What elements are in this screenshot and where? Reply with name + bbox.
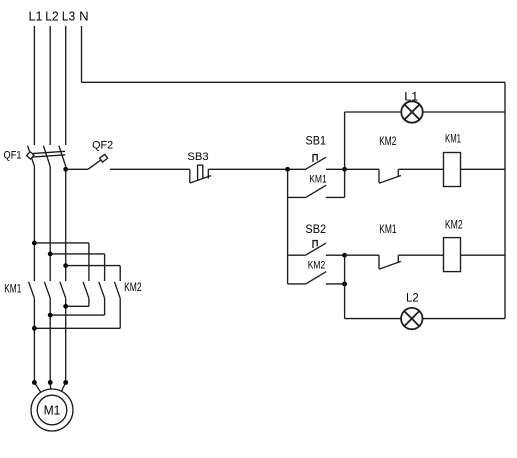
motor M1 outer circle [31,389,73,431]
wire lamp L2 horizontal [345,318,505,320]
contact KM2 aux left lead [288,283,306,285]
pushbutton SB1 plunger [313,155,317,162]
node L1 label [29,9,43,24]
svg-text:KM2: KM2 [308,259,326,271]
contact KM2 blade [379,176,401,184]
motor M1 inner circle [37,395,67,425]
wire rung1 right vertical [344,169,346,197]
contactor KM2 main contact 3 blade [114,282,120,298]
wire KM2 branch 3 lower [119,298,121,328]
wire tap A horizontal [34,242,89,244]
node tap A dot [32,241,37,246]
pushbutton SB1 blade [306,157,327,169]
pushbutton SB2 plunger [313,241,317,248]
contactor KM1 label [4,284,21,296]
node N label [79,9,89,24]
wire KM2 branch 1 lower [88,298,90,306]
wire lamp L1 horizontal [345,111,505,113]
pushbutton SB3 plunger [198,165,203,180]
wire L1 phase mid [33,166,35,281]
contactor KM2 label [124,282,142,294]
svg-text:KM1: KM1 [379,222,397,236]
coil KM2 rectangle [444,238,461,272]
wire KM1 contact to coil KM2 [398,254,443,256]
wire L2 phase mid [49,166,51,281]
wire rung2 right vertical [344,255,346,318]
node crossover 2 dot [48,313,53,318]
breaker QF1 pole 2 blade [43,146,50,167]
lamp L2 symbol [401,308,422,329]
wire N horizontal top [82,81,506,83]
wire coil KM2 to right rail [461,254,506,256]
node rung1 right dot [342,167,347,172]
svg-text:QF2: QF2 [92,140,113,152]
contact KM2 right stub [397,169,399,177]
lamp L1 label [404,90,418,104]
wire KM2 branch 2 lower [104,298,106,315]
wire L1 phase lower [33,298,35,382]
switch QF2 handle square [100,154,108,162]
wire coil KM1 to right rail [461,168,506,170]
pushbutton SB2 blade [306,243,327,255]
breaker QF1 pole 1 blade [28,146,35,167]
contact KM1 aux label [309,174,327,186]
svg-text:KM1: KM1 [445,133,461,145]
pushbutton SB1 left lead [288,168,306,170]
wire N right rail [504,82,506,318]
pushbutton SB3 blade [190,176,211,183]
contact KM2 aux label [308,259,326,271]
svg-text:SB2: SB2 [305,222,326,236]
lamp L1 symbol [401,101,422,122]
wire KM2 branch 3 upper [119,266,121,281]
pushbutton SB2 left lead [288,254,306,256]
pushbutton SB2 label [305,222,326,236]
pushbutton SB1 label [306,134,327,148]
contact KM2 aux blade [306,272,326,284]
contact KM1 blade [379,261,401,269]
wire tap B horizontal [50,253,104,255]
node crossover 1 dot [63,304,68,309]
contact KM1 left stub [378,255,380,269]
wire left rail [287,169,289,284]
contactor KM1 main contact 3 blade [60,282,66,298]
wire crossover 1 [66,305,89,307]
node L3 label [62,9,76,24]
lamp L2 label [406,291,419,305]
svg-text:KM2: KM2 [124,282,142,294]
node rung1 left dot [285,167,290,172]
wire SB3 to node [208,168,287,170]
pushbutton SB3 left stub [189,169,191,183]
wire QF2 right lead [110,168,190,170]
contactor KM1 main contact 1 blade [29,282,35,298]
node tap B dot [48,252,53,257]
svg-text:N: N [79,9,89,24]
wire crossover 3 [34,327,120,329]
pushbutton SB1 right lead [326,168,345,170]
wire motor lead 3 [61,383,65,392]
coil KM2 label [445,220,463,232]
wire crossover 2 [50,314,104,316]
svg-text:L2: L2 [406,291,419,305]
wire motor lead 1 [34,383,40,393]
contact KM1 aux right lead [326,196,345,198]
contact KM2 aux right lead [326,283,345,285]
wire KM2 branch 2 upper [104,254,106,281]
contact KM1 aux blade [306,185,326,197]
wire L3 phase mid [65,166,67,281]
pushbutton SB2 right lead [326,254,345,256]
contact KM2 label (rung1) [379,134,396,148]
wire rung1 to KM2 contact [345,168,379,170]
contact KM1 aux left lead [288,196,306,198]
wire motor lead 2 [49,383,52,390]
coil KM1 rectangle [444,153,461,187]
node QF2 tap dot [63,167,68,172]
breaker QF1 pole 3 blade [59,146,66,167]
contact KM1 right stub [397,255,399,263]
svg-text:KM2: KM2 [379,134,396,148]
svg-text:L2: L2 [45,9,59,24]
wire L3 phase upper [65,26,67,145]
pushbutton SB3 label [187,151,208,163]
svg-text:KM1: KM1 [4,284,21,296]
wire QF2 left lead [66,168,88,170]
node L2 label [45,9,59,24]
node rung2 right dot [342,253,347,258]
node motor terminal 1 [32,380,37,385]
node motor terminal 2 [48,380,53,385]
svg-text:M1: M1 [44,404,61,418]
svg-text:L1: L1 [29,9,43,24]
contactor KM1 main contact 2 blade [44,282,50,298]
coil KM1 label [445,133,461,145]
wire tap C horizontal [66,265,121,267]
wire L2 phase lower [49,298,51,382]
svg-text:KM1: KM1 [309,174,327,186]
contact KM1 label (rung2) [379,222,397,236]
breaker QF1 label [4,150,22,162]
contactor KM2 main contact 2 blade [99,282,105,298]
wire lamp L1 riser [344,112,346,169]
wire rung2 to KM1 contact [345,254,379,256]
contact KM2 left stub [378,169,380,183]
wire N vertical [81,26,83,82]
node KM2 aux right dot [342,282,347,287]
contactor KM2 main contact 1 blade [83,282,89,298]
wire L3 phase lower [65,298,67,382]
node tap C dot [63,263,68,268]
wire L2 phase upper [49,26,51,145]
switch QF2 blade [88,160,101,169]
svg-text:QF1: QF1 [4,150,22,162]
svg-text:SB3: SB3 [187,151,208,163]
node crossover 3 dot [32,326,37,331]
wire L1 phase upper [33,26,35,145]
svg-text:L3: L3 [62,9,76,24]
svg-text:SB1: SB1 [306,134,327,148]
motor M1 label [44,404,61,418]
breaker QF1 linkage bar [32,151,65,153]
switch QF2 label [92,140,113,152]
breaker QF1 handle square [27,152,34,159]
node motor terminal 3 [63,380,68,385]
wire KM2 branch 1 upper [88,243,90,281]
wire KM2 contact to coil KM1 [398,168,443,170]
svg-text:KM2: KM2 [445,220,463,232]
pushbutton SB3 right stub [207,169,209,178]
